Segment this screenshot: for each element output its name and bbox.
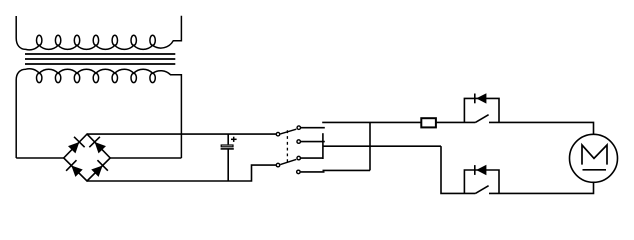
capacitor C1 lower lead <box>227 150 229 182</box>
wire: contact 4 feed line <box>323 169 371 171</box>
capacitor C1 positive plate (hollow) <box>221 145 233 147</box>
wire: middle feed line from tie bar <box>323 145 441 147</box>
motor M1 letter M <box>582 145 607 165</box>
wire: upper rail to motor top <box>489 122 594 134</box>
capacitor C1 plus polarity mark <box>231 137 237 142</box>
wire: contact 1 stub <box>301 127 325 129</box>
switch S1 contact 1 terminal <box>297 126 301 130</box>
wire: lower rail to motor bottom <box>489 182 594 193</box>
switch S1 lever (pole 1 to contact 1) <box>280 129 296 134</box>
wire: middle feed drop to lower rail <box>441 146 475 193</box>
switch contact of V1 (upper) (lever) <box>475 115 488 123</box>
motor M1 underline <box>583 169 607 171</box>
bridge rectifier diamond <box>64 134 110 181</box>
diode D6 (freewheel, pointing left) <box>475 165 487 175</box>
wire: contact 4 stub <box>301 171 325 173</box>
transformer T1 core <box>25 54 175 64</box>
wire: bridge right AC node to secondary right lead <box>110 157 181 159</box>
wire: contact 2 stub <box>301 141 325 143</box>
switch S1 lever (pole 2 to contact 3) <box>280 159 296 164</box>
switch S1 pole 1 terminal <box>276 132 280 136</box>
diode D4 (bridge arm, - to right AC) <box>90 160 108 178</box>
wire: bypass loop of V1 (upper) <box>464 98 499 122</box>
wire: bypass loop of V2 (lower) <box>464 170 499 193</box>
wire: resistor to upper switch rail <box>436 121 475 123</box>
switch S1 contact 2 terminal <box>297 140 301 144</box>
wire: upper feed line to resistor <box>322 121 421 123</box>
wire: riser joining contact 4 feed to upper feed line <box>369 122 371 170</box>
wire: negative DC rail from bridge to switch pole 2 <box>87 165 276 181</box>
wire: secondary left lead to bridge left AC node <box>16 157 64 159</box>
diode D2 (bridge arm, right AC to +) <box>89 137 107 155</box>
capacitor C1 negative plate <box>221 148 234 150</box>
transformer T1 secondary winding <box>16 69 181 158</box>
wire: contact 3 stub <box>301 157 323 159</box>
wire: positive DC rail from bridge to switch pole 1 <box>87 133 276 135</box>
switch S1 contact 4 terminal <box>297 170 301 174</box>
transformer T1 primary winding <box>16 16 181 50</box>
diode D1 (bridge arm, left AC to +) <box>66 137 84 155</box>
resistor R1 <box>421 118 436 127</box>
switch contact of V2 (lower) (lever) <box>475 186 488 194</box>
capacitor C1 upper lead <box>227 134 229 144</box>
motor M1 circle <box>570 134 618 182</box>
wire: tie bar joining contacts 2 and 3 <box>322 133 324 159</box>
switch S1 mechanical link (dashed) <box>286 130 288 162</box>
diode D5 (freewheel, pointing left) <box>475 93 487 103</box>
switch S1 contact 3 terminal <box>297 156 301 160</box>
switch S1 pole 2 terminal <box>276 163 280 167</box>
diode D3 (bridge arm, - to left AC) <box>66 160 84 178</box>
